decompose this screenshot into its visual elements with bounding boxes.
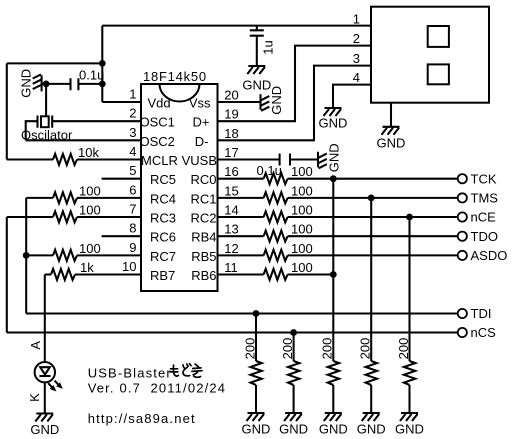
svg-text:10k: 10k [78, 145, 99, 160]
svg-text:ASDO: ASDO [471, 248, 508, 263]
svg-text:OSC1: OSC1 [140, 115, 175, 130]
svg-text:TMS: TMS [471, 191, 499, 206]
svg-text:GND: GND [395, 422, 424, 437]
svg-text:RC5: RC5 [150, 172, 176, 187]
svg-text:K: K [27, 393, 42, 402]
resistor 200 (nCS pulldown) [288, 361, 299, 385]
svg-text:Vss: Vss [189, 96, 211, 111]
ground (TCK pulldown) [319, 413, 348, 437]
wire 1k left lead [45, 273, 51, 275]
wire pin20 Vss [218, 101, 261, 103]
wire nCS row [7, 331, 458, 333]
resistor 200 (TCK pulldown) [328, 361, 339, 385]
wire TDO row [288, 235, 458, 237]
svg-text:RC6: RC6 [150, 230, 176, 245]
resistor 100 (pin14 nCE) [264, 211, 288, 222]
svg-text:15: 15 [224, 183, 238, 198]
svg-text:17: 17 [224, 145, 238, 160]
resistor R1 10k [53, 154, 77, 165]
wire Vdd vertical x=102 [101, 26, 103, 102]
svg-text:18F14k50: 18F14k50 [143, 69, 207, 84]
10k right lead to pin4 MCLR [77, 158, 141, 160]
wire TDI row [26, 312, 458, 314]
wire 0.1u left lead [46, 83, 70, 85]
svg-text:GND: GND [279, 422, 308, 437]
svg-text:100: 100 [291, 222, 313, 237]
wire pin1 Vdd [102, 101, 141, 103]
wire TCK pulldown column [332, 179, 334, 361]
svg-text:200: 200 [396, 338, 411, 360]
svg-text:18: 18 [224, 126, 238, 141]
wire nCE pulldown to ground [408, 385, 410, 413]
ground (top-left) [19, 69, 42, 98]
resistor 100 (pin11 RB6) [264, 269, 288, 280]
wire pin12 left lead [218, 254, 264, 256]
svg-text:OSC2: OSC2 [140, 134, 175, 149]
wire pin5 RC5 stub [102, 178, 141, 180]
svg-text:nCS: nCS [471, 325, 497, 340]
junction TCK/pulldown column [330, 175, 337, 182]
ground (USB pin4) [319, 108, 348, 131]
junction nCS/pulldown [290, 329, 297, 336]
wire pin9 to RC7 [77, 254, 141, 256]
junction TMS/pulldown column [368, 195, 375, 202]
svg-text:MCLR: MCLR [141, 153, 178, 168]
resistor 100 (pin15 TMS) [264, 192, 288, 203]
resistor R3 100 (RC3) [53, 211, 77, 222]
svg-text:A: A [28, 341, 43, 350]
node TDI terminal [458, 309, 467, 318]
svg-text:12: 12 [224, 241, 238, 256]
wire TMS pulldown to ground [370, 385, 372, 413]
svg-text:2: 2 [353, 31, 360, 46]
ground (TMS pulldown) [357, 413, 386, 437]
svg-text:100: 100 [79, 183, 101, 198]
svg-text:1k: 1k [80, 260, 94, 275]
wire TDI pulldown column [255, 314, 257, 362]
svg-text:100: 100 [79, 241, 101, 256]
svg-text:TDO: TDO [471, 229, 498, 244]
wire C2 top lead [256, 26, 258, 31]
svg-text:3: 3 [129, 125, 136, 140]
junction RB6/TCK column [330, 271, 337, 278]
svg-text:5: 5 [129, 163, 136, 178]
svg-text:100: 100 [291, 164, 313, 179]
wire Vdd branch to left rail [7, 62, 103, 64]
svg-text:RC0: RC0 [190, 172, 216, 187]
resistor 100 (pin12 ASDO) [264, 250, 288, 261]
IC internal pin-name labels [140, 96, 218, 284]
node ASDO terminal [458, 251, 467, 260]
svg-text:RB6: RB6 [191, 268, 216, 283]
svg-text:100: 100 [79, 203, 101, 218]
wire pin10 to RB7 [75, 273, 141, 275]
svg-text:GND: GND [377, 135, 406, 150]
LED D1 [35, 362, 63, 392]
wire rail x=7 to nCS [6, 217, 8, 333]
svg-text:GND: GND [327, 143, 342, 172]
wire C3 to ground [290, 158, 318, 160]
wire OSC1 pin2 [52, 120, 141, 122]
wire VBUS top rail to USB pin1 [102, 25, 371, 27]
svg-text:Ver. 0.7 2011/02/24: Ver. 0.7 2011/02/24 [88, 381, 226, 396]
wire nCS pulldown column [293, 333, 295, 362]
wire TCK pulldown to ground [332, 385, 334, 413]
node TDO terminal [458, 232, 467, 241]
wire pin7 to RC3 [77, 216, 141, 218]
svg-text:RB7: RB7 [150, 268, 175, 283]
svg-text:100: 100 [291, 203, 313, 218]
junction Vdd/branch [99, 60, 106, 67]
capacitor C1 0.1u [71, 78, 79, 90]
wire pin19 D+ to USB pin2 [218, 46, 372, 122]
wire pin13 left lead [218, 235, 264, 237]
wire pin18 D- to USB pin3 [218, 66, 372, 141]
wire pin8 RC6 stub [102, 235, 141, 237]
ground (VUSB cap) [318, 143, 342, 172]
svg-text:2: 2 [129, 106, 136, 121]
svg-text:nCE: nCE [471, 210, 497, 225]
svg-text:RC7: RC7 [150, 249, 176, 264]
svg-text:7: 7 [129, 202, 136, 217]
wire pin6 left lead [26, 197, 53, 199]
node nCE terminal [458, 212, 467, 221]
wire OSC2 pin3 [26, 139, 141, 141]
svg-text:VUSB: VUSB [182, 153, 217, 168]
svg-text:Vdd: Vdd [148, 96, 171, 111]
wire pin17 VUSB [218, 158, 280, 160]
svg-text:USB-Blaster: USB-Blaster [88, 365, 172, 380]
wire pin11 left lead [218, 273, 264, 275]
capacitor C3 0.1u (VUSB) [280, 154, 290, 166]
svg-text:GND: GND [269, 86, 284, 115]
svg-text:TCK: TCK [471, 171, 497, 186]
junction TDI/pulldown [253, 310, 260, 317]
svg-text:GND: GND [19, 69, 34, 98]
IC notch [160, 84, 200, 102]
resistor 200 (TMS pulldown) [366, 361, 377, 385]
wire TMS pulldown column [370, 198, 372, 361]
svg-text:RB5: RB5 [191, 249, 216, 264]
node TCK terminal [458, 174, 467, 183]
svg-text:1: 1 [353, 12, 360, 27]
svg-text:http://sa89a.net: http://sa89a.net [88, 411, 196, 426]
node TMS terminal [458, 193, 467, 202]
wire 0.1u right lead [78, 83, 102, 85]
svg-text:200: 200 [280, 338, 295, 360]
svg-text:RC3: RC3 [150, 211, 176, 226]
left pin numbers 1-10 [122, 87, 136, 275]
wire rail x=26 to TDI [25, 198, 27, 314]
wire ASDO row [288, 254, 458, 256]
wire resonator top lead [45, 84, 47, 116]
svg-text:GND: GND [242, 78, 271, 93]
ground (nCS pulldown) [279, 413, 308, 437]
svg-text:4: 4 [129, 144, 136, 159]
wire TMS row [288, 197, 458, 199]
ground (nCE pulldown) [395, 413, 424, 437]
resistor 100 (pin13 TDO) [264, 231, 288, 242]
svg-text:Oscilator: Oscilator [21, 127, 73, 142]
wire USB pin4 to ground [333, 85, 371, 108]
svg-text:20: 20 [224, 88, 238, 103]
resistor 200 (TDI pulldown) [250, 361, 261, 385]
svg-text:GND: GND [242, 422, 271, 437]
svg-text:1u: 1u [260, 40, 275, 54]
resistor R4 100 (RC7) [53, 250, 77, 261]
svg-text:GND: GND [30, 422, 59, 437]
USB connector contact square 1 [428, 26, 449, 47]
svg-text:100: 100 [291, 241, 313, 256]
svg-text:RC1: RC1 [190, 191, 216, 206]
capacitor C2 1u [250, 30, 264, 35]
svg-text:RB4: RB4 [191, 230, 216, 245]
svg-text:6: 6 [129, 182, 136, 197]
svg-text:11: 11 [224, 260, 238, 275]
resistor R5 1k (RB7-LED) [51, 269, 75, 280]
svg-text:100: 100 [291, 260, 313, 275]
wire pin16 left lead [218, 178, 264, 180]
USB pin number labels [353, 12, 360, 85]
wire TDI pulldown to ground [255, 385, 257, 413]
svg-text:100: 100 [291, 183, 313, 198]
ground (USB shell) [377, 127, 406, 151]
resistor 100 (pin16 TCK) [264, 173, 288, 184]
svg-text:19: 19 [224, 107, 238, 122]
wire pin7 left lead [7, 216, 53, 218]
svg-text:10: 10 [122, 259, 136, 274]
wire nCE pulldown column [408, 217, 410, 361]
wire pin9 left lead [26, 254, 53, 256]
svg-text:D-: D- [195, 134, 209, 149]
svg-text:8: 8 [129, 221, 136, 236]
svg-text:13: 13 [224, 222, 238, 237]
svg-text:RC4: RC4 [150, 191, 176, 206]
svg-text:200: 200 [242, 338, 257, 360]
svg-text:0.1u: 0.1u [257, 163, 282, 178]
svg-text:14: 14 [224, 203, 238, 218]
resistor 200 (nCE pulldown) [404, 361, 415, 385]
svg-text:0.1u: 0.1u [79, 68, 104, 83]
wire C2 bottom lead [256, 36, 258, 66]
wire LED anode [44, 275, 46, 363]
junction nCE/pulldown column [406, 214, 413, 221]
svg-text:GND: GND [357, 422, 386, 437]
wire LED cathode to ground [44, 382, 46, 413]
svg-text:16: 16 [224, 164, 238, 179]
wire resonator left lead [26, 121, 38, 140]
ground (C2) [242, 66, 271, 93]
svg-text:D+: D+ [193, 115, 210, 130]
wire pin14 left lead [218, 216, 264, 218]
wire nCE row [288, 216, 458, 218]
svg-text:GND: GND [319, 116, 348, 131]
wire nCS pulldown to ground [293, 385, 295, 413]
svg-text:200: 200 [320, 338, 335, 360]
wire pin15 left lead [218, 197, 264, 199]
svg-text:1: 1 [129, 87, 136, 102]
wire left rail to 10k pullup [6, 63, 8, 159]
wire TCK row [288, 178, 458, 180]
junction 0.1u/GND/resonator [43, 81, 50, 88]
svg-text:GND: GND [319, 422, 348, 437]
svg-text:9: 9 [129, 240, 136, 255]
IC U1 18F14k50 body [141, 84, 218, 291]
resistor R2 100 (RC4) [53, 192, 77, 203]
svg-text:RC2: RC2 [190, 211, 216, 226]
10k left lead [7, 158, 53, 160]
node nCS terminal [458, 328, 467, 337]
junction rail/RC7 resistor [23, 252, 30, 259]
USB connector J1 body [371, 7, 489, 103]
right pin numbers 20-11 [224, 88, 238, 276]
svg-text:4: 4 [353, 70, 360, 85]
oscillator X1 ceramic resonator [38, 116, 53, 128]
svg-text:200: 200 [358, 338, 373, 360]
junction Vdd/0.1u [99, 81, 106, 88]
wire to gnd bar [42, 83, 47, 85]
ground (TDI pulldown) [242, 413, 271, 437]
wire pin11 to TCK column [288, 273, 334, 275]
svg-text:TDI: TDI [471, 306, 492, 321]
ground (Vss pin20) [261, 86, 285, 115]
title kana "modoki" drawn as paths [170, 364, 202, 378]
wire USB shell to ground [390, 103, 392, 127]
ground (LED) [30, 414, 59, 438]
svg-text:3: 3 [353, 51, 360, 66]
USB connector contact square 2 [428, 64, 449, 84]
wire pin6 to RC4 [77, 197, 141, 199]
